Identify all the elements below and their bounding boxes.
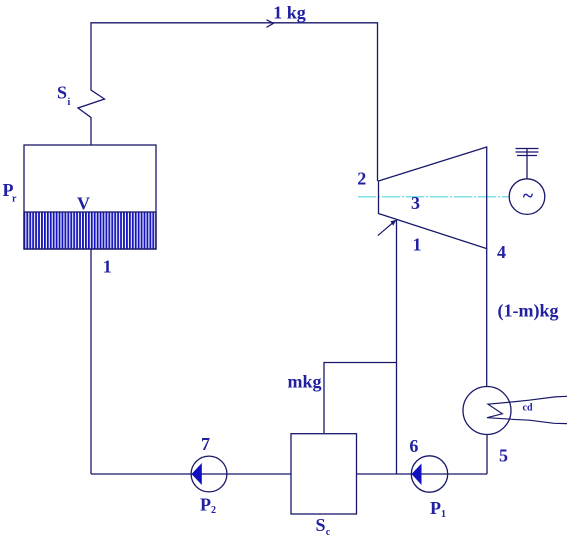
svg-text:4: 4: [497, 242, 506, 262]
svg-text:S: S: [57, 83, 67, 103]
svg-text:r: r: [12, 193, 17, 204]
svg-text:(1-m)kg: (1-m)kg: [498, 301, 559, 322]
svg-text:P: P: [200, 494, 211, 514]
svg-text:1: 1: [103, 256, 112, 276]
svg-text:3: 3: [411, 193, 420, 213]
svg-text:mkg: mkg: [288, 371, 322, 391]
svg-text:P: P: [430, 498, 441, 518]
svg-text:V: V: [77, 194, 90, 214]
svg-text:2: 2: [211, 505, 216, 516]
svg-text:i: i: [68, 97, 71, 108]
svg-text:5: 5: [499, 446, 508, 466]
svg-text:cd: cd: [523, 403, 533, 414]
svg-text:c: c: [326, 527, 331, 538]
svg-text:~: ~: [523, 186, 534, 207]
svg-text:1 kg: 1 kg: [273, 2, 306, 22]
svg-text:S: S: [316, 515, 326, 535]
svg-text:6: 6: [409, 436, 418, 456]
svg-text:1: 1: [441, 509, 446, 520]
svg-text:1: 1: [413, 235, 422, 255]
svg-text:2: 2: [357, 168, 366, 188]
svg-text:7: 7: [201, 434, 210, 454]
